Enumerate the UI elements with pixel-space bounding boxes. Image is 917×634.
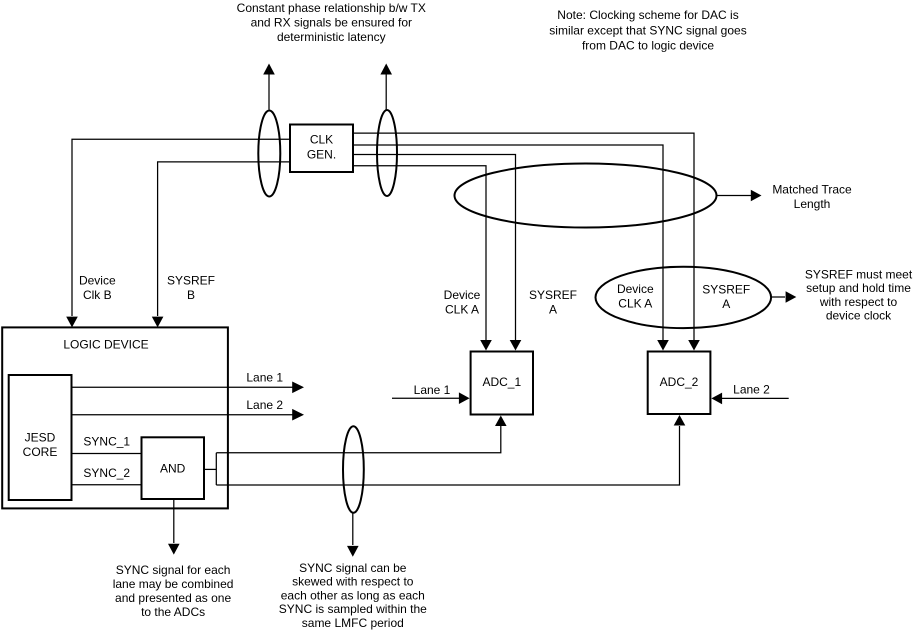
svg-text:Length: Length [794,197,831,211]
svg-text:CLK A: CLK A [618,297,652,311]
svg-text:Lane 2: Lane 2 [246,398,283,412]
svg-text:SYNC is sampled within the: SYNC is sampled within the [279,602,427,616]
svg-text:JESD: JESD [25,431,56,445]
svg-text:Note: Clocking scheme for DAC: Note: Clocking scheme for DAC is [557,8,738,22]
node: label SYSREF A (ADC_2) [702,283,750,311]
wire: Lane 2 into ADC_2 [722,397,789,399]
svg-text:with respect to: with respect to [819,295,898,309]
svg-text:A: A [722,297,730,311]
node: top-right note [549,8,746,53]
wire: down arrow from bottom ellipse [352,513,354,545]
svg-text:CLK A: CLK A [445,302,479,316]
node: label SYSREF B [167,274,215,303]
wire: down arrow from AND box [173,499,175,543]
node: label Matched Trace Length [772,183,852,212]
wire: CLK GEN to ADC_1 SYSREF A [353,155,516,341]
svg-text:Lane 2: Lane 2 [733,382,770,396]
svg-text:B: B [187,288,195,302]
svg-text:Device: Device [79,274,116,288]
svg-text:SYSREF: SYSREF [702,283,750,297]
wire: CLK GEN to ADC_2 Device CLK A [353,145,663,340]
wire: CLK GEN to ADC_2 SYSREF A (top line) [353,133,694,340]
svg-text:Lane 1: Lane 1 [414,383,451,397]
svg-text:LOGIC DEVICE: LOGIC DEVICE [63,338,148,352]
svg-text:Matched Trace: Matched Trace [772,183,852,197]
wire: arrow to SYSREF setup/hold note [771,296,785,298]
capacitor-like ellipse: left of CLK GEN [258,111,280,197]
wire: SYNC_1 from JESD CORE to AND [72,453,142,455]
svg-text:similar except that SYNC signa: similar except that SYNC signal goes [549,23,746,37]
wire: AND output to bracket [204,468,216,470]
node: label Device CLK A (ADC_2) [617,282,654,310]
wire: Lane 1 into ADC_1 [392,397,459,399]
svg-text:from DAC to logic device: from DAC to logic device [582,39,714,53]
svg-text:lane may be combined: lane may be combined [113,577,234,591]
svg-text:SYNC signal for each: SYNC signal for each [116,563,231,577]
svg-text:SYSREF: SYSREF [529,288,577,302]
node: big ellipse matched trace length [455,164,717,228]
node: bracket splitting SYNC [215,453,217,485]
svg-text:each other as long as each: each other as long as each [281,588,425,602]
svg-text:setup and hold time: setup and hold time [806,281,911,295]
component: AND gate box [142,437,205,499]
wire: up arrow from left ellipse to top annotation [268,73,270,110]
node: annotation SYNC skew [279,561,427,630]
svg-text:device clock: device clock [826,309,892,323]
component: ADC_1 box [471,352,533,415]
svg-text:GEN.: GEN. [307,148,336,162]
capacitor-like ellipse: right of CLK GEN [377,110,397,196]
node: label Device CLK A (ADC_1) [444,288,481,316]
svg-text:SYSREF: SYSREF [167,274,215,288]
svg-text:to the ADCs: to the ADCs [141,605,205,619]
wire: CLK GEN to ADC_1 Device CLK A [353,166,486,340]
wire: up arrow from right ellipse to top annotation [385,73,387,110]
svg-text:and RX signals be ensured for: and RX signals be ensured for [251,16,412,30]
svg-text:CORE: CORE [23,445,58,459]
svg-text:SYSREF must meet: SYSREF must meet [805,268,913,282]
component: ADC_2 box [648,352,711,415]
wire: SYNC_2 from JESD CORE to AND [72,484,142,486]
wire: arrow to Matched Trace Length label [717,195,752,197]
svg-text:Lane 1: Lane 1 [246,371,283,385]
svg-text:SYNC_2: SYNC_2 [83,466,130,480]
node: label Device Clk B [79,274,116,303]
svg-text:ADC_2: ADC_2 [660,375,699,389]
node: small ellipse around ADC_2 clock labels [596,267,772,328]
svg-text:and presented as one: and presented as one [115,591,231,605]
component: CLK GEN box [290,125,353,173]
wire: Lane 2 out of logic device [72,414,294,416]
wire: Lane 1 out of logic device [72,386,294,388]
svg-text:AND: AND [160,462,186,476]
wire: SYSREF B from CLK GEN to LOGIC DEVICE [158,162,290,316]
svg-text:deterministic latency: deterministic latency [277,30,386,44]
component: JESD CORE box [9,375,72,500]
component: LOGIC DEVICE box [2,327,228,508]
wire: SYNC to ADC_1 [216,426,501,453]
wire: SYNC to ADC_2 [216,426,679,485]
node: top annotation "Constant phase relationship" [237,1,426,44]
node: bottom ellipse on SYNC lines [343,426,364,513]
svg-text:CLK: CLK [310,133,333,147]
svg-text:Device: Device [444,288,481,302]
svg-text:skewed with respect to: skewed with respect to [292,575,414,589]
svg-text:Device: Device [617,282,654,296]
svg-text:A: A [549,302,557,316]
svg-text:same LMFC period: same LMFC period [302,616,404,630]
svg-text:SYNC signal can be: SYNC signal can be [299,561,407,575]
svg-text:Constant phase relationship b/: Constant phase relationship b/w TX [237,1,426,15]
node: annotation SYNC combined [113,563,234,619]
wire: Device Clk B from CLK GEN to LOGIC DEVICE [72,139,290,316]
svg-text:Clk B: Clk B [83,288,112,302]
node: annotation SYSREF must meet setup and hold [805,268,913,323]
node: label SYSREF A (ADC_1) [529,288,577,316]
svg-text:SYNC_1: SYNC_1 [83,435,130,449]
svg-text:ADC_1: ADC_1 [482,375,521,389]
